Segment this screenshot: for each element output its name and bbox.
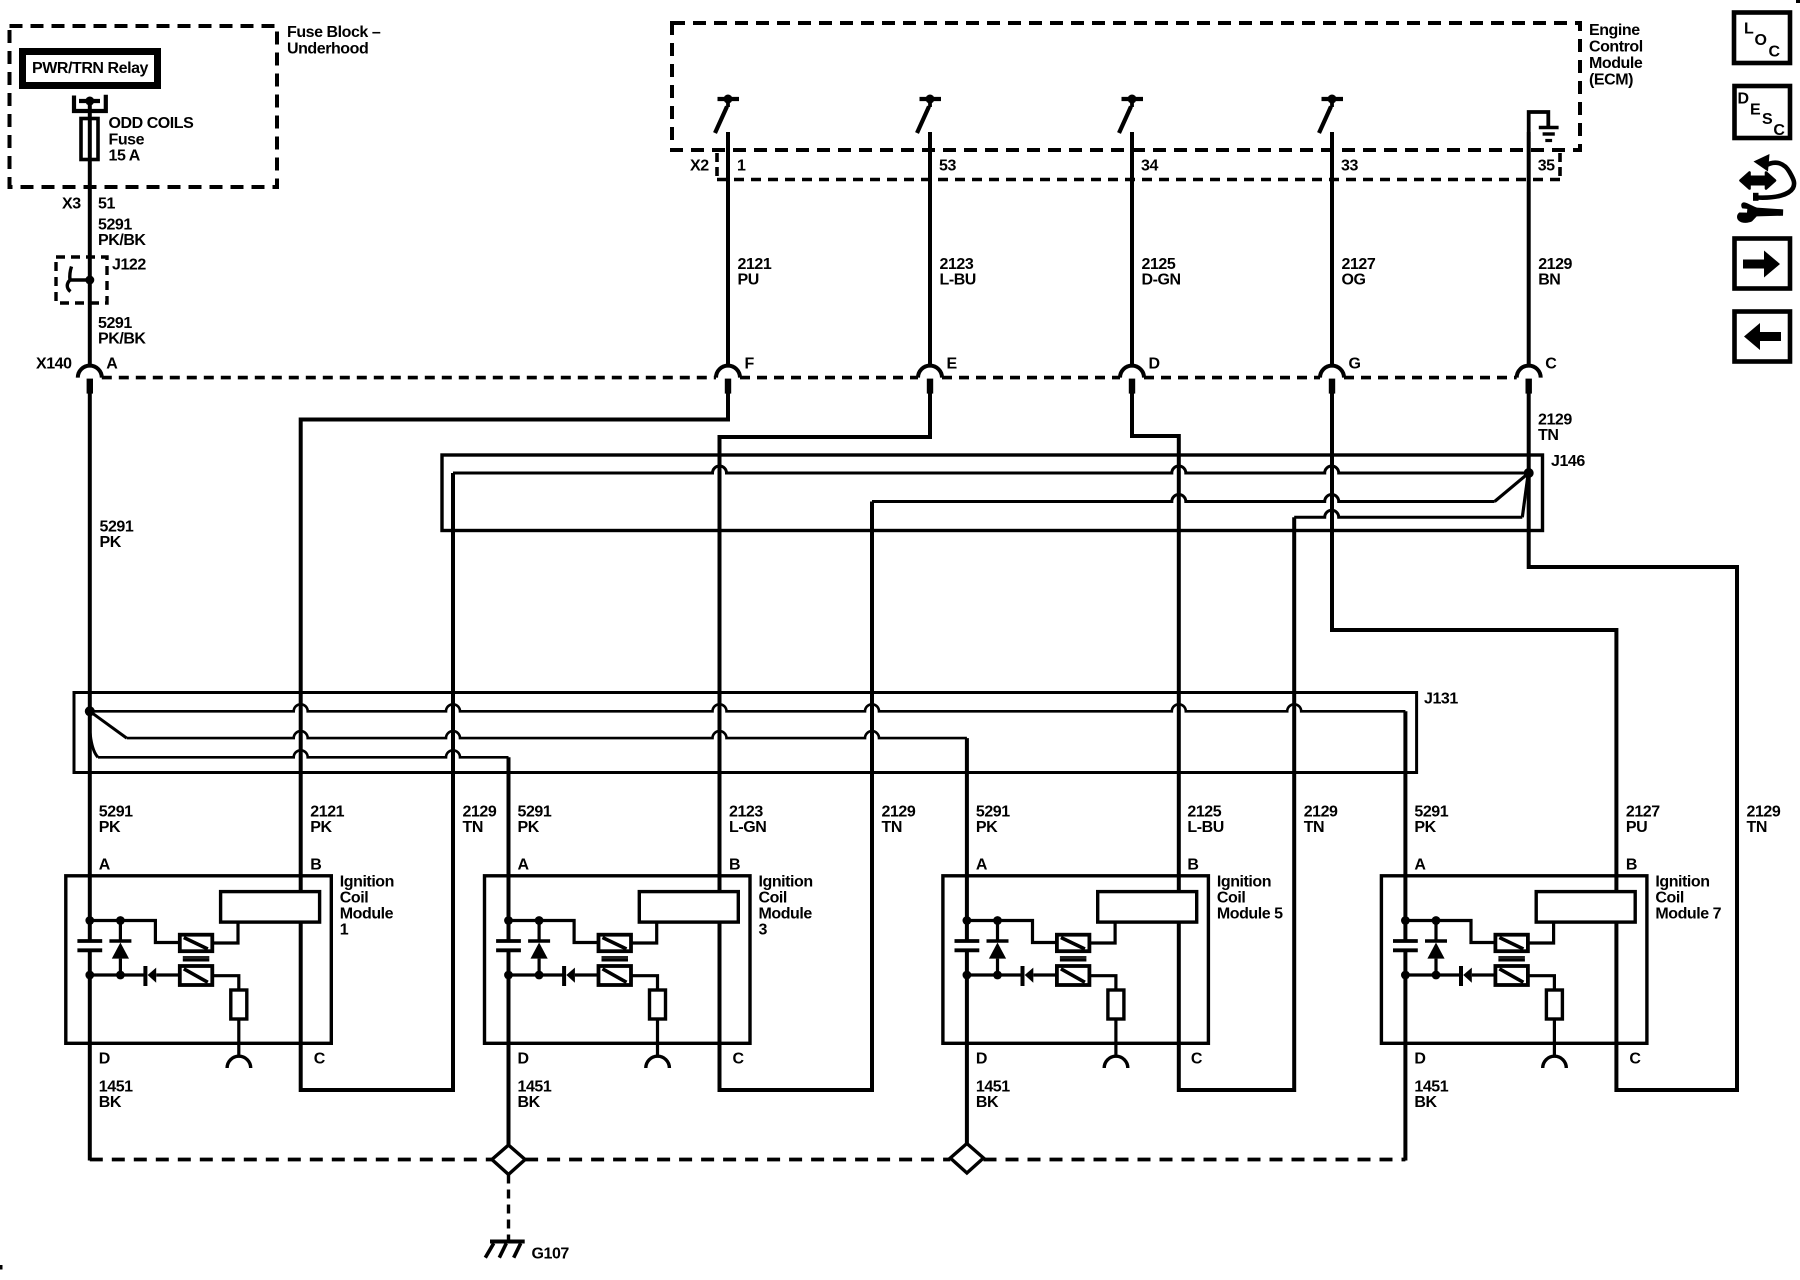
svg-text:Fuse Block –: Fuse Block –: [287, 24, 381, 41]
svg-text:PK: PK: [310, 819, 332, 836]
ECM driver output pin 33: [1322, 97, 1344, 101]
svg-text:35: 35: [1538, 158, 1555, 175]
svg-text:Ignition: Ignition: [1655, 874, 1709, 891]
svg-text:Control: Control: [1589, 39, 1643, 56]
ground bus 1451 BK dashed: [90, 1158, 492, 1162]
ECM driver output pin 1: [718, 97, 740, 101]
svg-text:1: 1: [737, 158, 746, 175]
svg-text:2127: 2127: [1342, 256, 1376, 273]
svg-text:2123: 2123: [940, 256, 974, 273]
svg-text:L: L: [1744, 21, 1754, 38]
wire 2129 BN from ECM: [1527, 132, 1531, 366]
svg-text:2125: 2125: [1187, 804, 1221, 821]
X140 terminal G: [1320, 366, 1344, 378]
svg-text:L-BU: L-BU: [940, 272, 976, 289]
svg-text:PK/BK: PK/BK: [98, 232, 146, 249]
J131 rail A (to module 7 A): [90, 704, 1406, 711]
X140 terminal D: [1120, 366, 1144, 378]
svg-text:5291: 5291: [100, 519, 134, 536]
dashed drop to G107: [507, 1175, 510, 1241]
svg-text:2123: 2123: [729, 804, 763, 821]
J146 rail 3 (to module 5 C): [1294, 510, 1522, 517]
svg-text:2129: 2129: [1747, 804, 1781, 821]
svg-text:G107: G107: [532, 1246, 570, 1263]
J146 rail 1 (to module 1 C): [453, 466, 1529, 473]
splice diamond at module 5 ground: [950, 1144, 983, 1174]
svg-text:Coil: Coil: [759, 890, 787, 907]
svg-text:L-BU: L-BU: [1187, 819, 1223, 836]
splice diamond at module 3 ground: [492, 1145, 525, 1175]
wire 2125 D jog to module 5 B: [1132, 394, 1294, 1091]
svg-text:1: 1: [340, 922, 349, 939]
svg-text:Coil: Coil: [1217, 890, 1245, 907]
ground G107: [490, 1240, 525, 1244]
wire 2127 G jog to module 7 B: [1332, 394, 1737, 1091]
wire 2127 OG from ECM: [1330, 132, 1334, 366]
svg-text:PU: PU: [1626, 819, 1647, 836]
svg-text:51: 51: [98, 196, 115, 213]
wire 2123 E jog to module 3 B: [720, 394, 931, 1091]
svg-text:L-GN: L-GN: [729, 819, 766, 836]
svg-text:Module: Module: [759, 906, 813, 923]
svg-text:TN: TN: [1304, 819, 1324, 836]
svg-text:3: 3: [759, 922, 768, 939]
svg-text:5291: 5291: [98, 217, 132, 234]
svg-text:PK: PK: [100, 534, 122, 551]
fuse block underhood dashed box: [10, 26, 278, 187]
svg-text:Engine: Engine: [1589, 22, 1640, 39]
svg-text:PU: PU: [738, 272, 759, 289]
svg-text:OG: OG: [1342, 272, 1366, 289]
wire 2129 TN from C to J146 splice: [1527, 394, 1531, 474]
svg-text:2129: 2129: [1538, 256, 1572, 273]
PWR/TRN Relay: [23, 52, 158, 86]
wire 2121 F jog to module 1 B: [301, 394, 728, 1091]
ignition coil module 3: [485, 804, 751, 1112]
back arrow icon: [1735, 312, 1791, 362]
ignition coil module 1: [66, 804, 332, 1112]
svg-text:Underhood: Underhood: [287, 41, 368, 58]
svg-text:TN: TN: [1538, 427, 1558, 444]
splice J122: [56, 257, 107, 303]
page corner marks: [1796, 0, 1800, 3]
wire 5291 PK A to J131 and module 1: [88, 394, 92, 942]
forward arrow icon: [1735, 239, 1791, 289]
svg-text:C: C: [1545, 356, 1557, 373]
svg-text:2129: 2129: [463, 804, 497, 821]
svg-text:53: 53: [939, 158, 956, 175]
svg-text:J146: J146: [1551, 453, 1585, 470]
Engine Control Module (ECM) dashed box: [672, 23, 1580, 150]
svg-text:Module 7: Module 7: [1655, 906, 1721, 923]
service info icon (arrows + wrench): [1741, 173, 1776, 189]
svg-text:D: D: [1149, 356, 1160, 373]
svg-text:TN: TN: [882, 819, 902, 836]
svg-text:ODD COILS: ODD COILS: [109, 115, 195, 132]
svg-text:2129: 2129: [882, 804, 916, 821]
svg-text:(ECM): (ECM): [1589, 72, 1633, 89]
svg-text:TN: TN: [1747, 819, 1767, 836]
ignition coil module 7: [1381, 804, 1647, 1112]
splice pack J131 box: [74, 693, 1417, 773]
ECM driver output pin 53: [920, 97, 942, 101]
svg-text:F: F: [745, 356, 755, 373]
wire 2125 D-GN from ECM: [1130, 132, 1134, 366]
svg-text:Module: Module: [340, 906, 394, 923]
svg-text:Ignition: Ignition: [1217, 874, 1271, 891]
svg-text:Module 5: Module 5: [1217, 906, 1283, 923]
svg-text:O: O: [1755, 32, 1767, 49]
svg-text:X2: X2: [690, 158, 709, 175]
svg-text:BN: BN: [1538, 272, 1560, 289]
svg-text:G: G: [1349, 356, 1361, 373]
X140 terminal F: [716, 366, 740, 378]
connector X140 row: [102, 376, 716, 380]
ECM internal ground pin 35: [1529, 112, 1549, 132]
ECM driver output pin 34: [1122, 97, 1144, 101]
ODD COILS fuse 15A: [81, 119, 98, 160]
LOC icon: [1734, 13, 1790, 64]
svg-text:C: C: [1773, 122, 1785, 139]
splice pack J146 box: [442, 455, 1543, 531]
wire 2121 PU from ECM: [726, 132, 730, 366]
svg-text:A: A: [106, 356, 118, 373]
svg-text:Coil: Coil: [340, 890, 368, 907]
J131 splice node: [85, 706, 95, 716]
wire 5291 PK to module 5 A: [965, 738, 969, 941]
svg-text:Coil: Coil: [1655, 890, 1683, 907]
X140 terminal C: [1517, 366, 1541, 378]
wire 5291 PK to module 3 A: [507, 757, 511, 941]
svg-text:33: 33: [1341, 158, 1358, 175]
svg-text:C: C: [1769, 44, 1781, 61]
svg-text:PWR/TRN Relay: PWR/TRN Relay: [32, 60, 148, 77]
svg-text:D-GN: D-GN: [1142, 272, 1181, 289]
svg-text:2121: 2121: [738, 256, 772, 273]
DESC icon: [1735, 86, 1791, 138]
svg-text:2129: 2129: [1538, 412, 1572, 429]
svg-text:5291: 5291: [98, 315, 132, 332]
X140 terminal A: [78, 366, 102, 378]
svg-text:2121: 2121: [310, 804, 344, 821]
wire 2123 L-BU from ECM: [928, 132, 932, 366]
J146 splice node: [1524, 468, 1534, 478]
svg-text:J122: J122: [112, 257, 146, 274]
svg-text:D: D: [1738, 91, 1749, 108]
svg-text:Ignition: Ignition: [759, 874, 813, 891]
svg-text:S: S: [1762, 111, 1773, 128]
wire 5291 PK to module 7 A: [1403, 711, 1407, 941]
connector X2 row: [715, 153, 719, 179]
X140 terminal E: [918, 366, 942, 378]
svg-text:15 A: 15 A: [109, 148, 141, 165]
svg-text:2127: 2127: [1626, 804, 1660, 821]
J131 rail C (to module 3 A): [89, 711, 98, 757]
svg-text:X3: X3: [62, 196, 81, 213]
wire relay to fuse to X140 (5291 PK/BK): [88, 101, 92, 366]
svg-text:Ignition: Ignition: [340, 874, 394, 891]
svg-text:J131: J131: [1424, 691, 1458, 708]
svg-text:34: 34: [1141, 158, 1158, 175]
svg-text:TN: TN: [463, 819, 483, 836]
ignition coil module 5: [943, 804, 1209, 1112]
svg-text:PK/BK: PK/BK: [98, 331, 146, 348]
J146 rail 2 (to module 3 C): [872, 495, 1495, 502]
relay terminal bracket: [74, 95, 106, 111]
svg-text:2125: 2125: [1142, 256, 1176, 273]
svg-text:E: E: [947, 356, 958, 373]
svg-text:E: E: [1750, 102, 1761, 119]
svg-text:Module: Module: [1589, 55, 1643, 72]
svg-text:X140: X140: [36, 356, 72, 373]
svg-text:2129: 2129: [1304, 804, 1338, 821]
svg-text:Fuse: Fuse: [109, 132, 145, 149]
J131 rail B (to module 5 A): [90, 711, 127, 738]
